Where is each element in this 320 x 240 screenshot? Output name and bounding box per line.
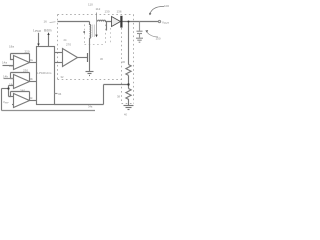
svg-text:18a: 18a (9, 44, 14, 48)
svg-text:34: 34 (58, 92, 62, 96)
svg-text:14a: 14a (2, 61, 7, 65)
svg-text:34a: 34a (88, 105, 93, 109)
svg-text:130: 130 (105, 9, 110, 13)
svg-text:240: 240 (20, 89, 25, 93)
svg-text:100: 100 (164, 4, 169, 8)
svg-text:110: 110 (88, 3, 93, 7)
svg-text:136: 136 (117, 9, 122, 13)
svg-text:Bdim: Bdim (44, 28, 52, 32)
svg-text:LPWM: LPWM (33, 28, 41, 33)
svg-text:270: 270 (66, 43, 71, 47)
svg-text:230: 230 (23, 68, 28, 72)
svg-text:18b: 18b (9, 64, 14, 68)
svg-text:16: 16 (44, 20, 48, 24)
svg-text:18c: 18c (9, 83, 14, 87)
svg-text:14b: 14b (3, 75, 8, 79)
svg-text:150: 150 (156, 37, 161, 41)
svg-text:220: 220 (25, 49, 30, 53)
svg-text:112: 112 (96, 7, 101, 11)
